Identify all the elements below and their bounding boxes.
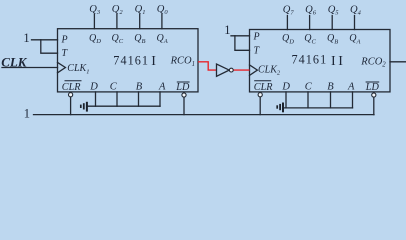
svg-text:1: 1 [23,31,29,45]
svg-text:CLK: CLK [1,54,28,69]
svg-text:CLR: CLR [254,82,273,93]
svg-text:A: A [158,82,166,93]
svg-text:C: C [110,82,118,93]
svg-text:LD: LD [175,82,190,93]
svg-text:RCO1: RCO1 [170,56,195,68]
svg-text:LD: LD [365,82,380,93]
svg-text:D: D [89,82,98,93]
svg-text:CLK1: CLK1 [67,63,89,75]
svg-text:A: A [347,82,355,93]
svg-text:P: P [253,32,260,43]
svg-text:1: 1 [24,106,30,120]
svg-text:P: P [61,34,68,45]
svg-text:74161: 74161 [113,53,149,67]
svg-text:C: C [305,82,313,93]
svg-text:B: B [136,82,143,93]
svg-text:I: I [151,54,156,69]
svg-text:I: I [331,54,336,69]
svg-text:74161: 74161 [292,53,328,67]
svg-text:1: 1 [224,23,230,37]
svg-text:D: D [281,82,290,93]
svg-text:B: B [327,82,334,93]
svg-text:CLR: CLR [62,82,81,93]
svg-text:I: I [338,54,343,69]
